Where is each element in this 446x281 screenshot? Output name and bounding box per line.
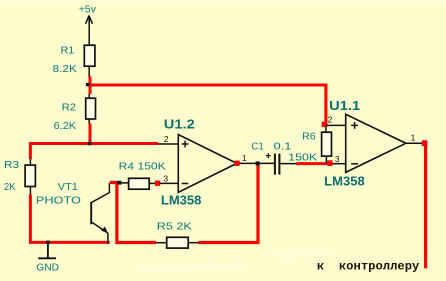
wire red R3 to ground rail <box>29 195 110 243</box>
resistor R4 <box>119 161 166 190</box>
svg-text:LM358: LM358 <box>161 193 202 208</box>
node junction dot X/R4 <box>117 181 121 185</box>
wire U1.1 output <box>406 142 422 144</box>
resistor R6 <box>288 125 331 163</box>
pin 1 label U1.1 <box>411 132 416 142</box>
svg-text:3: 3 <box>335 154 340 164</box>
svg-text:1: 1 <box>411 132 416 142</box>
svg-text:1: 1 <box>242 153 247 163</box>
svg-text:3: 3 <box>163 173 168 183</box>
pin 2 label U1.1 <box>328 115 333 125</box>
wire pin2 stub U1.2 <box>158 143 178 145</box>
svg-text:VT1: VT1 <box>58 181 78 193</box>
transistor VT1 labels <box>36 181 81 206</box>
wire top red rail to U1.1 <box>89 85 326 127</box>
wire node X red vertical <box>110 181 156 243</box>
wire node to R2 <box>88 94 90 98</box>
wire red segment pin3 U1.1 <box>296 162 331 165</box>
svg-text:GND: GND <box>36 262 59 274</box>
resistor R5 <box>156 221 199 248</box>
pin 3 label U1.1 <box>335 154 340 164</box>
svg-text:R4 150K: R4 150K <box>119 161 166 173</box>
resistor R1 <box>53 44 95 75</box>
svg-text:2: 2 <box>164 134 169 144</box>
svg-text:R1: R1 <box>61 44 75 56</box>
svg-text:к контроллеру: к контроллеру <box>317 259 420 273</box>
node red dot U1.2 output <box>234 161 239 166</box>
svg-text:R6: R6 <box>302 130 316 142</box>
op-amp U1.1 <box>324 98 406 189</box>
node red dot R6 top / pin2 <box>322 122 327 127</box>
svg-text:R2: R2 <box>62 102 77 114</box>
wire red stub R2 to rail2 <box>89 123 92 145</box>
wire U1.2 output to C1 <box>240 162 275 164</box>
wire R3 bottom <box>29 187 31 196</box>
transistor Q VT1 phototransistor <box>91 183 109 244</box>
wire pin3 into U1.1 <box>331 163 346 165</box>
resistor R2 <box>54 98 96 132</box>
wire +5v to R1 <box>88 16 90 45</box>
wire R2 bottom <box>88 119 90 125</box>
node red dot U1.1 output <box>422 140 428 146</box>
power +5v symbol <box>79 3 97 23</box>
ground <box>36 244 59 274</box>
svg-text:U1.2: U1.2 <box>164 116 195 131</box>
svg-text:U1.1: U1.1 <box>329 98 360 113</box>
svg-text:R5 2K: R5 2K <box>157 221 192 233</box>
svg-text:150K: 150K <box>288 151 317 163</box>
svg-text:6.2K: 6.2K <box>54 120 77 132</box>
wire pin3 to U1.2 <box>160 182 179 184</box>
pin 1 label U1.2 <box>242 153 247 163</box>
svg-text:R3: R3 <box>4 159 19 171</box>
node junction dot C1 branch <box>256 161 260 165</box>
pin 3 label U1.2 <box>163 173 168 183</box>
wire pin2 stub U1.1 <box>326 124 346 126</box>
pin 2 label U1.2 <box>164 134 169 144</box>
svg-text:C1: C1 <box>251 141 263 153</box>
node red dot R6 bottom / pin3 <box>327 160 332 166</box>
op-amp U1.2 <box>161 116 237 207</box>
svg-text:PHOTO: PHOTO <box>36 194 81 206</box>
node label to controller <box>317 259 420 273</box>
wire C1 to pin3 U1.1 black <box>280 163 297 165</box>
svg-text:LM358: LM358 <box>324 174 365 189</box>
node junction dot GND tap <box>46 241 50 245</box>
wire red stub R1-R2 node <box>89 76 92 94</box>
wire red output down <box>424 143 427 268</box>
wire R1 to node <box>88 66 90 77</box>
wire rail2 to R3 <box>29 159 31 165</box>
wire red rail2 to U1.2 pin2 <box>29 142 158 159</box>
node junction dot R1/R2 <box>86 83 89 86</box>
node red dot R4/pin3 <box>155 181 160 186</box>
capacitor C1 <box>251 141 291 175</box>
svg-text:+5v: +5v <box>79 3 97 15</box>
svg-text:2: 2 <box>328 115 333 125</box>
wire red feedback vertical <box>198 163 259 242</box>
node junction dot R2/rail2 <box>88 142 92 146</box>
resistor R3 <box>4 159 35 193</box>
svg-text:8.2K: 8.2K <box>53 63 77 75</box>
svg-text:2K: 2K <box>4 181 16 193</box>
